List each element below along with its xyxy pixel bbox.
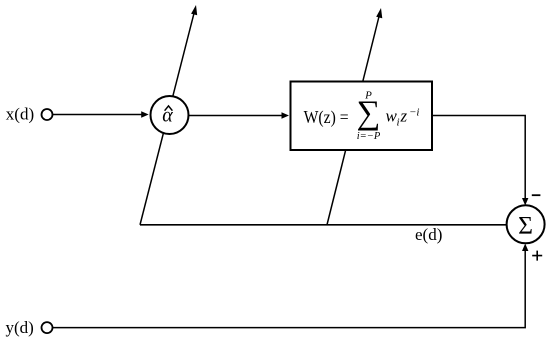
- input terminal y(d): [42, 322, 53, 333]
- wire multiplier to W(z) block: [189, 115, 284, 117]
- multiplier alpha-hat U1: [151, 96, 189, 134]
- arrowhead down into summer: [522, 198, 528, 206]
- arrowhead adaptation arrow 1: [191, 5, 197, 15]
- arrowhead adaptation arrow 2: [376, 8, 382, 18]
- svg-text:i: i: [397, 117, 400, 129]
- input terminal x(d): [42, 109, 53, 120]
- adaptation arrow 2 (through W block): [327, 15, 380, 225]
- svg-text:x(d): x(d): [6, 104, 34, 123]
- block W(z): [291, 82, 433, 151]
- svg-text:i=−P: i=−P: [357, 131, 381, 142]
- svg-text:e(d): e(d): [415, 225, 442, 244]
- arrowhead up into summer: [522, 244, 528, 252]
- arrowhead into multiplier: [141, 111, 149, 117]
- svg-text:W(z) =: W(z) =: [304, 107, 349, 128]
- arrowhead into W(z) block: [282, 112, 290, 118]
- svg-text:y(d): y(d): [6, 318, 34, 337]
- summer circle: [507, 205, 545, 243]
- adaptation arrow 1 (through multiplier): [140, 13, 194, 225]
- svg-text:z: z: [400, 107, 408, 126]
- wire x(d) to multiplier: [53, 114, 143, 116]
- wire y(d) to summer (right then up): [53, 250, 526, 328]
- wire W(z) to summer (right then down): [433, 116, 525, 200]
- svg-text:Σ: Σ: [518, 211, 533, 240]
- error wire e(d): [140, 224, 507, 226]
- plus sign at summer: [532, 251, 542, 261]
- svg-text:−i: −i: [409, 107, 419, 119]
- minus sign at summer: [532, 194, 541, 196]
- svg-text:P: P: [364, 90, 372, 102]
